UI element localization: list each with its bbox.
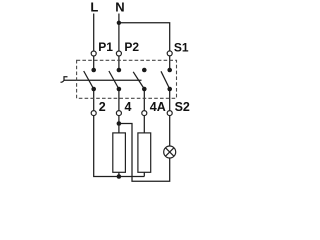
svg-text:S2: S2 xyxy=(175,100,190,114)
svg-text:2: 2 xyxy=(99,100,106,114)
svg-text:P2: P2 xyxy=(124,40,139,54)
svg-text:4: 4 xyxy=(125,100,132,114)
svg-text:4A: 4A xyxy=(150,100,166,114)
svg-text:P1: P1 xyxy=(98,40,113,54)
svg-text:S1: S1 xyxy=(174,40,189,54)
svg-text:L: L xyxy=(90,0,98,14)
svg-text:N: N xyxy=(115,0,124,14)
